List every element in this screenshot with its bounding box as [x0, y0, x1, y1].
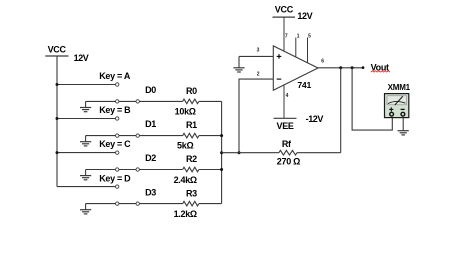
- ground switch bit 0: [80, 101, 91, 111]
- wire VCC branch bit 2: [57, 152, 115, 154]
- wire output to multimeter: [352, 68, 392, 130]
- pin 4 wire op-amp VEE: [283, 85, 285, 118]
- wire summing bus vertical: [221, 101, 223, 203]
- node junction output / feedback: [339, 66, 342, 69]
- wire resistor R3 to summing bus: [199, 203, 222, 205]
- wire feedback vertical: [340, 68, 342, 153]
- wire switch row bit 1: [86, 135, 183, 137]
- svg-text:R3: R3: [186, 188, 197, 198]
- wire VCC branch bit 3: [57, 186, 115, 188]
- svg-text:7: 7: [285, 34, 288, 40]
- wire switch row bit 3: [86, 203, 183, 205]
- svg-text:R1: R1: [186, 120, 197, 130]
- wire VCC branch bit 1: [57, 118, 115, 120]
- resistor R1 5kΩ: [177, 120, 199, 151]
- svg-text:5kΩ: 5kΩ: [177, 141, 193, 151]
- svg-text:R2: R2: [186, 154, 197, 164]
- switch S1 Key = B: [99, 105, 139, 137]
- svg-text:-12V: -12V: [306, 114, 324, 124]
- node junction summing / Rf: [238, 151, 241, 154]
- svg-text:VEE: VEE: [277, 121, 294, 131]
- wire switch row bit 0: [86, 100, 183, 102]
- wire op-amp output: [318, 67, 362, 69]
- node terminal Vout: [362, 66, 365, 69]
- pin 1 stub op-amp: [295, 38, 297, 58]
- node junctions summing bus: [220, 134, 223, 171]
- pin 7 wire op-amp VCC: [283, 17, 285, 51]
- switch S3 Key = D: [99, 173, 139, 205]
- svg-text:Rf: Rf: [282, 139, 292, 149]
- svg-text:D0: D0: [145, 85, 156, 95]
- net label Vout: [371, 62, 390, 72]
- switch S2 Key = C: [99, 139, 139, 171]
- ground switch bit 2: [80, 170, 91, 180]
- wire resistor R0 to summing bus: [199, 100, 222, 102]
- svg-text:Key = C: Key = C: [99, 139, 131, 149]
- wire feedback row right: [297, 152, 341, 154]
- wire op-amp non-inverting input to ground: [239, 55, 273, 57]
- svg-text:270 Ω: 270 Ω: [277, 156, 300, 166]
- wire resistor R1 to summing bus: [199, 135, 222, 137]
- svg-text:D1: D1: [145, 119, 156, 129]
- node junction on VCC bus bit 2: [56, 151, 59, 154]
- wire VCC bus vertical: [56, 56, 58, 187]
- svg-text:Key = A: Key = A: [99, 71, 131, 81]
- svg-text:1.2kΩ: 1.2kΩ: [174, 209, 197, 219]
- resistor R2 2.4kΩ: [174, 154, 199, 185]
- resistor R0 10kΩ: [175, 86, 199, 117]
- svg-text:XMM1: XMM1: [388, 83, 411, 92]
- svg-text:10kΩ: 10kΩ: [175, 107, 196, 117]
- svg-text:6: 6: [321, 59, 324, 65]
- svg-text:Vout: Vout: [371, 62, 389, 72]
- node junction on VCC bus bit 0: [56, 83, 59, 86]
- svg-text:3: 3: [257, 47, 260, 53]
- power VEE op-amp supply: [274, 114, 324, 131]
- power VCC left rail V1: [45, 44, 89, 62]
- wire switch row bit 2: [86, 169, 183, 171]
- op-amp U1 741: [273, 46, 318, 90]
- svg-text:R0: R0: [186, 86, 197, 96]
- wire multimeter negative pin: [402, 118, 404, 131]
- svg-text:Key = D: Key = D: [99, 173, 131, 183]
- svg-text:VCC: VCC: [275, 4, 294, 14]
- multimeter XMM1: [385, 83, 411, 117]
- svg-text:VCC: VCC: [48, 44, 67, 54]
- resistor R3 1.2kΩ: [174, 188, 199, 219]
- wire summing node to op-amp inverting input: [239, 79, 273, 153]
- svg-text:12V: 12V: [74, 53, 89, 63]
- svg-text:2: 2: [257, 71, 260, 77]
- svg-text:D3: D3: [145, 187, 156, 197]
- svg-text:1: 1: [297, 34, 300, 40]
- node junction output / meter: [351, 66, 354, 69]
- wire VCC branch bit 0: [57, 84, 115, 86]
- node junction on VCC bus bit 1: [56, 117, 59, 120]
- ground switch bit 3: [80, 204, 91, 214]
- ground multimeter: [398, 131, 409, 135]
- wire resistor R2 to summing bus: [199, 169, 222, 171]
- wire feedback row left: [222, 152, 279, 154]
- svg-text:2.4kΩ: 2.4kΩ: [174, 175, 197, 185]
- svg-text:D2: D2: [145, 153, 156, 163]
- svg-text:4: 4: [286, 93, 289, 99]
- ground op-amp non-inverting input: [233, 56, 244, 72]
- svg-text:Key = B: Key = B: [99, 105, 131, 115]
- svg-text:12V: 12V: [297, 11, 312, 21]
- svg-text:741: 741: [297, 80, 311, 90]
- ground switch bit 1: [80, 136, 91, 146]
- switch S0 Key = A: [99, 71, 139, 103]
- resistor Rf 270 Ohm: [277, 139, 300, 166]
- power VCC op-amp supply: [273, 4, 313, 21]
- pin 5 stub op-amp: [307, 38, 309, 64]
- svg-text:5: 5: [308, 34, 311, 40]
